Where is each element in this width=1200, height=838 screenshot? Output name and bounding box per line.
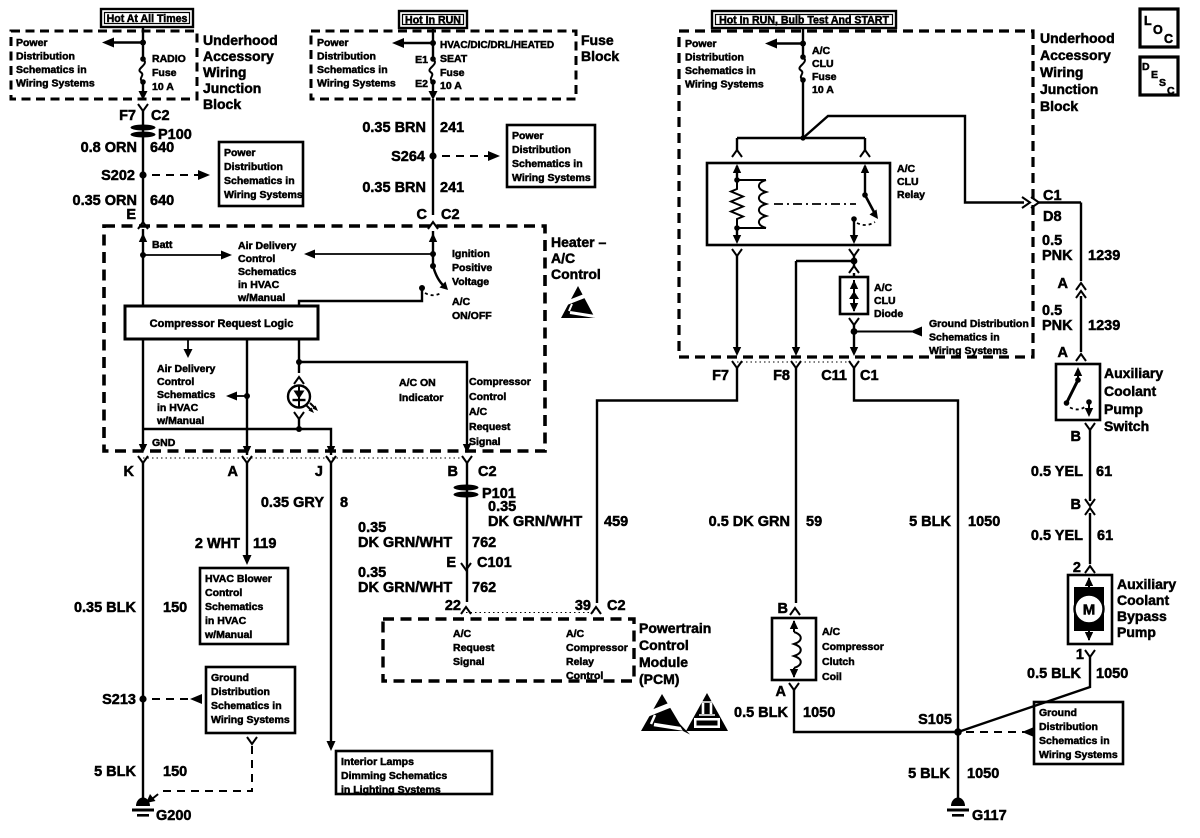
svg-text:Accessory: Accessory bbox=[1040, 47, 1111, 63]
svg-text:PNK: PNK bbox=[1042, 318, 1073, 334]
reference text: Power Distribution Schematics in Wiring Systems (middle fuse box) bbox=[317, 37, 396, 90]
svg-text:G200: G200 bbox=[156, 808, 191, 824]
reference arrow from S264 bbox=[442, 151, 500, 161]
svg-text:Voltage: Voltage bbox=[452, 276, 489, 288]
svg-text:Junction: Junction bbox=[1040, 81, 1098, 97]
splice S213 bbox=[102, 692, 146, 708]
svg-text:Interior Lamps: Interior Lamps bbox=[341, 756, 414, 768]
svg-text:PNK: PNK bbox=[1042, 248, 1073, 264]
svg-text:Module: Module bbox=[639, 654, 688, 670]
relay switch common contact bbox=[850, 216, 875, 244]
svg-text:459: 459 bbox=[604, 514, 628, 530]
svg-text:8: 8 bbox=[340, 495, 348, 511]
svg-text:Power: Power bbox=[685, 38, 717, 50]
svg-text:Block: Block bbox=[203, 96, 241, 112]
svg-text:Request: Request bbox=[453, 642, 495, 654]
terminal 39 / C2 into PCM bbox=[575, 598, 626, 614]
splice pass-through P101 bbox=[454, 485, 516, 503]
svg-text:Power: Power bbox=[16, 37, 48, 49]
svg-text:Schematics in: Schematics in bbox=[16, 64, 87, 76]
svg-text:CLU: CLU bbox=[874, 295, 896, 307]
wire: fuse output exiting fuse block bbox=[429, 82, 438, 155]
svg-text:A/C: A/C bbox=[897, 163, 916, 175]
reference dashed link from ground distribution box to G200 bbox=[146, 737, 257, 803]
svg-text:Distribution: Distribution bbox=[16, 51, 75, 63]
svg-text:1050: 1050 bbox=[1096, 666, 1128, 682]
svg-text:2: 2 bbox=[1073, 560, 1081, 576]
svg-text:A/C: A/C bbox=[812, 45, 831, 57]
svg-text:Wiring Systems: Wiring Systems bbox=[211, 714, 290, 726]
coil: A/C Compressor Clutch Coil bbox=[772, 618, 884, 683]
svg-text:Clutch: Clutch bbox=[822, 656, 855, 668]
svg-text:F8: F8 bbox=[773, 368, 790, 384]
svg-text:1239: 1239 bbox=[1088, 318, 1120, 334]
svg-text:Distribution: Distribution bbox=[512, 144, 571, 156]
wire: A/C clutch feed 0.5 DK GRN 59 from F8 bbox=[709, 368, 823, 603]
wire label 0.35 DK GRN/WHT 762 (lower) bbox=[358, 565, 496, 596]
svg-text:A/C: A/C bbox=[452, 296, 471, 308]
svg-text:A/C: A/C bbox=[822, 626, 841, 638]
wire label 0.35 DK GRN/WHT 762 (upper) bbox=[358, 520, 496, 551]
wire from Hot In RUN Bulb Test into junction block bbox=[802, 28, 804, 56]
switch: A/C ON/OFF bbox=[419, 263, 492, 322]
connector B (in-line, chevron pair) bbox=[1031, 497, 1113, 564]
svg-text:150: 150 bbox=[163, 600, 187, 616]
svg-text:Compressor: Compressor bbox=[566, 642, 628, 654]
svg-text:B: B bbox=[1071, 429, 1081, 445]
wire: J dimming 0.35 GRY 8 bbox=[261, 463, 348, 751]
reference text: Power Distribution Schematics in Wiring Systems (left fuse box) bbox=[16, 37, 95, 90]
svg-text:C2: C2 bbox=[478, 464, 497, 480]
svg-text:0.5 BLK: 0.5 BLK bbox=[734, 705, 789, 721]
svg-text:Wiring: Wiring bbox=[203, 64, 246, 80]
wire: 0.35 BRN circuit 241 (lower) bbox=[362, 156, 464, 215]
connector terminal F7 / C2 bbox=[119, 104, 169, 124]
svg-text:Fuse: Fuse bbox=[812, 71, 837, 83]
wire: relay coil-side pin to terminal F7 bbox=[732, 249, 742, 356]
terminals F7 F8 C11 C1 at junction block edge bbox=[712, 361, 878, 384]
svg-text:0.35 GRY: 0.35 GRY bbox=[261, 495, 324, 511]
svg-text:59: 59 bbox=[806, 514, 822, 530]
svg-text:Control: Control bbox=[238, 253, 275, 265]
svg-text:DK GRN/WHT: DK GRN/WHT bbox=[358, 580, 452, 596]
svg-text:B: B bbox=[778, 601, 788, 617]
svg-text:Power: Power bbox=[224, 147, 256, 159]
text: Underhood Accessory Wiring Junction Block (left) bbox=[203, 32, 278, 112]
diode: A/C CLU Diode bbox=[840, 277, 903, 320]
svg-text:HVAC Blower: HVAC Blower bbox=[205, 573, 272, 585]
svg-text:Wiring Systems: Wiring Systems bbox=[685, 79, 764, 91]
fuse: HVAC/DIC/DRL/HEATED SEAT Fuse 10 A with terminals E1 E2 bbox=[415, 40, 554, 92]
svg-text:E1: E1 bbox=[415, 54, 428, 66]
arrow to power distribution schematics (left) bbox=[102, 38, 143, 48]
svg-text:Control: Control bbox=[469, 391, 506, 403]
fuse block dashed box (middle) bbox=[311, 31, 576, 99]
svg-text:Block: Block bbox=[1040, 98, 1078, 114]
splice S105 bbox=[918, 712, 962, 736]
junction block right: Underhood Accessory Wiring dashed box bbox=[679, 31, 1033, 357]
label box: Hot In RUN bbox=[399, 11, 467, 28]
terminals K A J B / C2 below heater box bbox=[124, 456, 497, 480]
svg-text:150: 150 bbox=[163, 764, 187, 780]
svg-text:61: 61 bbox=[1096, 464, 1112, 480]
svg-text:Wiring: Wiring bbox=[1040, 64, 1083, 80]
module: Powertrain Control Module dashed box bbox=[383, 613, 634, 683]
svg-text:0.35: 0.35 bbox=[358, 520, 386, 536]
ground G200 bbox=[132, 798, 191, 825]
svg-text:1050: 1050 bbox=[967, 766, 999, 782]
reference box: Power Distribution Schematics in Wiring Systems (S202) bbox=[219, 142, 303, 206]
wire: switch output to compressor request logic bbox=[299, 288, 422, 306]
splice S264 bbox=[391, 149, 436, 165]
svg-text:10 A: 10 A bbox=[440, 80, 462, 92]
terminal E into HVAC control head bbox=[126, 207, 148, 229]
terminal B into clutch coil bbox=[778, 601, 800, 617]
svg-text:Fuse: Fuse bbox=[440, 67, 465, 79]
terminal 22 into PCM bbox=[445, 598, 471, 614]
svg-text:Underhood: Underhood bbox=[1040, 30, 1115, 46]
svg-text:762: 762 bbox=[472, 580, 496, 596]
svg-text:Request: Request bbox=[469, 421, 511, 433]
svg-text:Distribution: Distribution bbox=[1039, 721, 1098, 733]
LED: A/C ON Indicator bbox=[288, 377, 443, 429]
relay actuation dash-dot link bbox=[774, 203, 856, 205]
label box: Hot In RUN, Bulb Test And START bbox=[712, 11, 896, 28]
svg-text:5 BLK: 5 BLK bbox=[909, 514, 951, 530]
svg-text:Wiring Systems: Wiring Systems bbox=[1039, 749, 1118, 761]
svg-text:S264: S264 bbox=[391, 149, 425, 165]
svg-text:S105: S105 bbox=[918, 712, 952, 728]
svg-text:Diode: Diode bbox=[874, 308, 903, 320]
relay pin chevrons (top) bbox=[732, 150, 870, 157]
svg-text:(PCM): (PCM) bbox=[639, 671, 679, 687]
svg-text:w/Manual: w/Manual bbox=[156, 415, 204, 427]
text: Underhood Accessory Wiring Junction Block (right) bbox=[1040, 30, 1115, 114]
svg-text:C101: C101 bbox=[477, 555, 512, 571]
svg-text:F7: F7 bbox=[712, 368, 729, 384]
svg-text:0.5 YEL: 0.5 YEL bbox=[1031, 528, 1083, 544]
svg-text:D8: D8 bbox=[1043, 209, 1062, 225]
svg-text:Schematics: Schematics bbox=[205, 601, 264, 613]
junction block left: Underhood Accessory Wiring dashed box bbox=[11, 31, 197, 99]
wire: clutch coil ground 0.5 BLK 1050 bbox=[734, 683, 958, 732]
svg-text:Dimming Schematics: Dimming Schematics bbox=[341, 770, 447, 782]
node: junction dot on radio fuse feed bbox=[140, 40, 146, 46]
arrow: ignition voltage to air delivery schematics bbox=[304, 248, 492, 288]
svg-text:w/Manual: w/Manual bbox=[237, 292, 285, 304]
svg-text:2 WHT: 2 WHT bbox=[195, 536, 240, 552]
svg-text:119: 119 bbox=[253, 536, 276, 552]
text: Fuse Block bbox=[581, 32, 619, 64]
svg-text:Relay: Relay bbox=[897, 189, 925, 201]
svg-text:C: C bbox=[1164, 32, 1173, 46]
svg-text:E2: E2 bbox=[415, 78, 428, 90]
motor: Auxiliary Coolant Bypass Pump bbox=[1068, 575, 1176, 644]
svg-text:C2: C2 bbox=[151, 108, 170, 124]
svg-text:Compressor: Compressor bbox=[822, 641, 884, 653]
wire: ground feed 5 BLK 1050 from C11/C1 bbox=[854, 368, 1000, 798]
svg-text:0.35 BRN: 0.35 BRN bbox=[362, 120, 426, 136]
reference box: Interior Lamps Dimming Schematics in Lighting Systems bbox=[336, 751, 492, 796]
svg-text:Schematics: Schematics bbox=[157, 389, 216, 401]
svg-text:Air Delivery: Air Delivery bbox=[157, 363, 216, 375]
svg-text:Indicator: Indicator bbox=[399, 392, 443, 404]
wire: split bar feeding relay pins bbox=[737, 138, 865, 150]
svg-text:E: E bbox=[126, 207, 136, 223]
svg-text:Block: Block bbox=[581, 48, 619, 64]
reference box: Ground Distribution Schematics in Wiring Systems (S213) bbox=[206, 667, 295, 733]
svg-text:A: A bbox=[776, 684, 787, 700]
svg-text:762: 762 bbox=[472, 535, 496, 551]
svg-text:Control: Control bbox=[551, 266, 601, 282]
svg-text:10 A: 10 A bbox=[152, 81, 174, 93]
svg-text:0.35 BRN: 0.35 BRN bbox=[362, 180, 426, 196]
svg-text:A/C ON: A/C ON bbox=[399, 377, 436, 389]
svg-text:C: C bbox=[1167, 85, 1175, 97]
svg-text:0.5 YEL: 0.5 YEL bbox=[1031, 464, 1083, 480]
svg-text:Switch: Switch bbox=[1104, 418, 1149, 434]
icon: DESC box bbox=[1140, 57, 1178, 97]
resistor (relay coil suppression) bbox=[731, 180, 743, 228]
reference arrow from S105 bbox=[966, 727, 1034, 737]
icon: ESD sensitive triangle (heater control) bbox=[559, 286, 595, 318]
svg-text:Power: Power bbox=[512, 130, 544, 142]
logic block: Compressor Request Logic bbox=[125, 306, 318, 339]
svg-text:0.35 BLK: 0.35 BLK bbox=[74, 600, 137, 616]
terminal C / C2 into HVAC control head bbox=[417, 207, 460, 229]
svg-text:S202: S202 bbox=[101, 168, 135, 184]
wire: 0.35 ORN circuit 640 bbox=[73, 175, 175, 222]
svg-text:10 A: 10 A bbox=[812, 84, 834, 96]
svg-text:Fuse: Fuse bbox=[581, 32, 614, 48]
svg-text:Wiring Systems: Wiring Systems bbox=[929, 345, 1008, 357]
svg-text:Coolant: Coolant bbox=[1117, 592, 1169, 608]
svg-text:C: C bbox=[417, 207, 428, 223]
svg-text:CLU: CLU bbox=[897, 176, 919, 188]
svg-text:K: K bbox=[124, 464, 135, 480]
svg-text:L: L bbox=[1144, 14, 1152, 28]
svg-text:Auxiliary: Auxiliary bbox=[1117, 576, 1176, 592]
wire: branch to C1 D8 output bbox=[800, 116, 1024, 203]
icon: LOC box bbox=[1140, 9, 1178, 47]
svg-text:Schematics in: Schematics in bbox=[211, 700, 282, 712]
relay coil-side pin (male arrow up) bbox=[733, 164, 741, 183]
wire: branch from relay output to terminal F8 bbox=[792, 261, 854, 356]
svg-text:E: E bbox=[446, 555, 456, 571]
svg-text:GND: GND bbox=[152, 437, 176, 449]
svg-text:Schematics: Schematics bbox=[238, 266, 297, 278]
svg-text:CLU: CLU bbox=[812, 58, 834, 70]
inductor: relay coil bbox=[737, 180, 766, 228]
svg-text:C11: C11 bbox=[821, 368, 847, 384]
wire: ignition voltage entering at C bbox=[429, 231, 437, 266]
svg-text:Schematics in: Schematics in bbox=[929, 332, 1000, 344]
svg-text:0.5: 0.5 bbox=[1042, 233, 1062, 249]
svg-text:in HVAC: in HVAC bbox=[157, 402, 199, 414]
svg-text:0.5 DK GRN: 0.5 DK GRN bbox=[709, 514, 790, 530]
node: junction dot on HVAC fuse feed bbox=[430, 40, 436, 46]
relay output chevron and branch node bbox=[849, 249, 859, 277]
wire label 0.8 ORN 640 bbox=[81, 140, 175, 156]
svg-text:Hot In RUN, Bulb Test And STAR: Hot In RUN, Bulb Test And START bbox=[719, 15, 889, 27]
svg-text:Distribution: Distribution bbox=[211, 686, 270, 698]
svg-text:A/C: A/C bbox=[453, 628, 472, 640]
svg-text:Wiring Systems: Wiring Systems bbox=[16, 78, 95, 90]
connector terminal E / C101 bbox=[446, 555, 511, 571]
svg-text:C2: C2 bbox=[441, 207, 460, 223]
svg-text:Compressor: Compressor bbox=[469, 376, 531, 388]
switch: Auxiliary Coolant Pump Switch bbox=[1056, 364, 1163, 434]
svg-text:Distribution: Distribution bbox=[224, 161, 283, 173]
svg-text:Compressor Request Logic: Compressor Request Logic bbox=[150, 318, 294, 330]
svg-text:0.35: 0.35 bbox=[358, 565, 386, 581]
svg-text:0.5 BLK: 0.5 BLK bbox=[1027, 666, 1082, 682]
svg-text:Hot In RUN: Hot In RUN bbox=[405, 15, 461, 27]
ground G117 bbox=[947, 798, 1007, 825]
svg-text:Junction: Junction bbox=[203, 80, 261, 96]
reference box: Ground Distribution Schematics in Wiring Systems (S105) bbox=[1034, 702, 1123, 764]
node: relay coil bottom junction bbox=[733, 225, 741, 244]
svg-text:Power: Power bbox=[317, 37, 349, 49]
svg-text:0.5: 0.5 bbox=[1042, 303, 1062, 319]
svg-text:Underhood: Underhood bbox=[203, 32, 278, 48]
svg-text:0.8 ORN: 0.8 ORN bbox=[81, 140, 137, 156]
wire: A blower control 2 WHT 119 bbox=[195, 463, 277, 565]
wire: B request signal down to P101 bbox=[466, 463, 468, 602]
svg-text:Powertrain: Powertrain bbox=[639, 620, 711, 636]
svg-text:SEAT: SEAT bbox=[440, 53, 468, 65]
svg-text:Relay: Relay bbox=[566, 656, 594, 668]
svg-text:in HVAC: in HVAC bbox=[205, 615, 247, 627]
svg-text:1050: 1050 bbox=[803, 705, 835, 721]
wire: Batt feed inside control head bbox=[139, 229, 173, 306]
connector A (in-line, double chevron) bbox=[1042, 276, 1120, 361]
svg-text:C2: C2 bbox=[607, 598, 626, 614]
svg-text:F7: F7 bbox=[119, 108, 136, 124]
reference box: Power Distribution Schematics in Wiring Systems (S264) bbox=[507, 125, 595, 187]
reference arrow from S202 bbox=[152, 170, 210, 180]
svg-text:w/Manual: w/Manual bbox=[204, 629, 252, 641]
svg-text:O: O bbox=[1153, 23, 1163, 37]
svg-text:241: 241 bbox=[440, 180, 464, 196]
svg-text:Control: Control bbox=[205, 587, 242, 599]
svg-text:640: 640 bbox=[150, 140, 174, 156]
svg-text:RADIO: RADIO bbox=[152, 53, 186, 65]
reference arrow: Ground Distribution Schematics (diode) bbox=[854, 318, 1029, 357]
text: Powertrain Control Module (PCM) bbox=[639, 620, 711, 687]
svg-text:Schematics in: Schematics in bbox=[685, 65, 756, 77]
fuse: A/C CLU Fuse 10 A bbox=[799, 45, 836, 96]
svg-text:Signal: Signal bbox=[469, 436, 501, 448]
svg-text:Batt: Batt bbox=[152, 239, 173, 251]
module: Heater A/C Control dashed box bbox=[104, 226, 606, 451]
connector arrows C1 (double chevron at junction block edge) bbox=[1022, 188, 1081, 225]
svg-text:Distribution: Distribution bbox=[685, 52, 744, 64]
svg-text:241: 241 bbox=[440, 120, 464, 136]
svg-text:ON/OFF: ON/OFF bbox=[452, 310, 492, 322]
svg-text:Pump: Pump bbox=[1117, 624, 1156, 640]
svg-text:Control: Control bbox=[157, 376, 194, 388]
svg-text:0.35: 0.35 bbox=[488, 499, 516, 515]
wire: indicator ground return to K and J bbox=[143, 426, 331, 455]
svg-text:Schematics in: Schematics in bbox=[1039, 735, 1110, 747]
wire: logic output to terminal A bbox=[226, 339, 250, 455]
wire: 0.8 ORN circuit 640 bbox=[142, 111, 144, 172]
svg-text:S: S bbox=[1159, 77, 1166, 89]
node: junction dot on A/C CLU fuse feed bbox=[800, 41, 806, 47]
svg-text:in Lighting Systems: in Lighting Systems bbox=[341, 784, 441, 796]
svg-text:M: M bbox=[1083, 602, 1096, 619]
wire label 0.35 BRN 241 (upper) bbox=[362, 120, 464, 136]
splice S202 bbox=[101, 168, 146, 184]
reference box: HVAC Blower Control Schematics in HVAC w/Manual bbox=[200, 568, 288, 644]
svg-text:A: A bbox=[228, 464, 239, 480]
wire: GND to terminal K bbox=[143, 339, 176, 449]
svg-text:Ground: Ground bbox=[211, 672, 249, 684]
svg-text:Ignition: Ignition bbox=[452, 248, 490, 260]
svg-text:G117: G117 bbox=[972, 808, 1007, 824]
svg-text:J: J bbox=[315, 464, 323, 480]
svg-text:Coil: Coil bbox=[822, 671, 842, 683]
svg-text:Positive: Positive bbox=[452, 262, 492, 274]
svg-text:Bypass: Bypass bbox=[1117, 608, 1167, 624]
svg-text:A/C: A/C bbox=[874, 282, 893, 294]
wire: 0.5 YEL 61 from switch bbox=[1031, 423, 1112, 501]
svg-text:1050: 1050 bbox=[968, 514, 1000, 530]
svg-text:D: D bbox=[1142, 61, 1150, 73]
svg-text:S213: S213 bbox=[102, 692, 136, 708]
svg-text:Control: Control bbox=[566, 670, 603, 682]
svg-text:HVAC/DIC/DRL/HEATED: HVAC/DIC/DRL/HEATED bbox=[440, 40, 554, 51]
svg-text:Wiring Systems: Wiring Systems bbox=[317, 78, 396, 90]
svg-text:Heater –: Heater – bbox=[551, 234, 606, 250]
reference text: Power Distribution Schematics in Wiring Systems (right box) bbox=[685, 38, 764, 91]
svg-text:A: A bbox=[1058, 345, 1069, 361]
svg-text:in HVAC: in HVAC bbox=[238, 279, 280, 291]
svg-text:Distribution: Distribution bbox=[317, 51, 376, 63]
wire from Hot In RUN into fuse block bbox=[432, 28, 434, 58]
wire: fuse output down to split bbox=[802, 80, 804, 138]
wire: pump ground 0.5 BLK 1050 to S105 bbox=[958, 647, 1128, 732]
svg-text:Auxiliary: Auxiliary bbox=[1104, 365, 1163, 381]
icon: OBD II triangle bbox=[686, 693, 728, 731]
relay switch-side pin (male arrow up) bbox=[861, 164, 869, 198]
text: Compressor Control A/C Request Signal bbox=[469, 376, 531, 448]
svg-text:Schematics in: Schematics in bbox=[317, 64, 388, 76]
svg-text:Schematics in: Schematics in bbox=[224, 175, 295, 187]
svg-text:DK GRN/WHT: DK GRN/WHT bbox=[358, 535, 452, 551]
svg-text:640: 640 bbox=[150, 193, 174, 209]
wire: logic output to A/C ON indicator and terminal B bbox=[296, 339, 467, 448]
svg-text:Air Delivery: Air Delivery bbox=[238, 240, 297, 252]
wire from Hot At All Times into fuse box bbox=[142, 27, 144, 58]
label box: Hot At All Times bbox=[101, 9, 193, 27]
relay switch arm bbox=[865, 195, 878, 219]
svg-text:1: 1 bbox=[1076, 647, 1084, 663]
arrow: Batt to Air Delivery Control Schematics bbox=[143, 251, 232, 260]
wire: diode output to terminal C11 bbox=[849, 318, 859, 356]
svg-text:DK GRN/WHT: DK GRN/WHT bbox=[488, 514, 582, 530]
splice pass-through P100 bbox=[131, 125, 192, 144]
svg-text:A/C: A/C bbox=[469, 406, 488, 418]
arrow: logic to air delivery control (down) bbox=[184, 339, 193, 358]
svg-text:C1: C1 bbox=[1043, 188, 1062, 204]
svg-text:B: B bbox=[448, 464, 458, 480]
wire: K ground 0.35 BLK 150 bbox=[74, 463, 187, 798]
text: Air Delivery Control Schematics in HVAC w/Manual (upper) bbox=[237, 240, 297, 304]
svg-text:Control: Control bbox=[639, 637, 689, 653]
svg-text:C1: C1 bbox=[860, 368, 879, 384]
